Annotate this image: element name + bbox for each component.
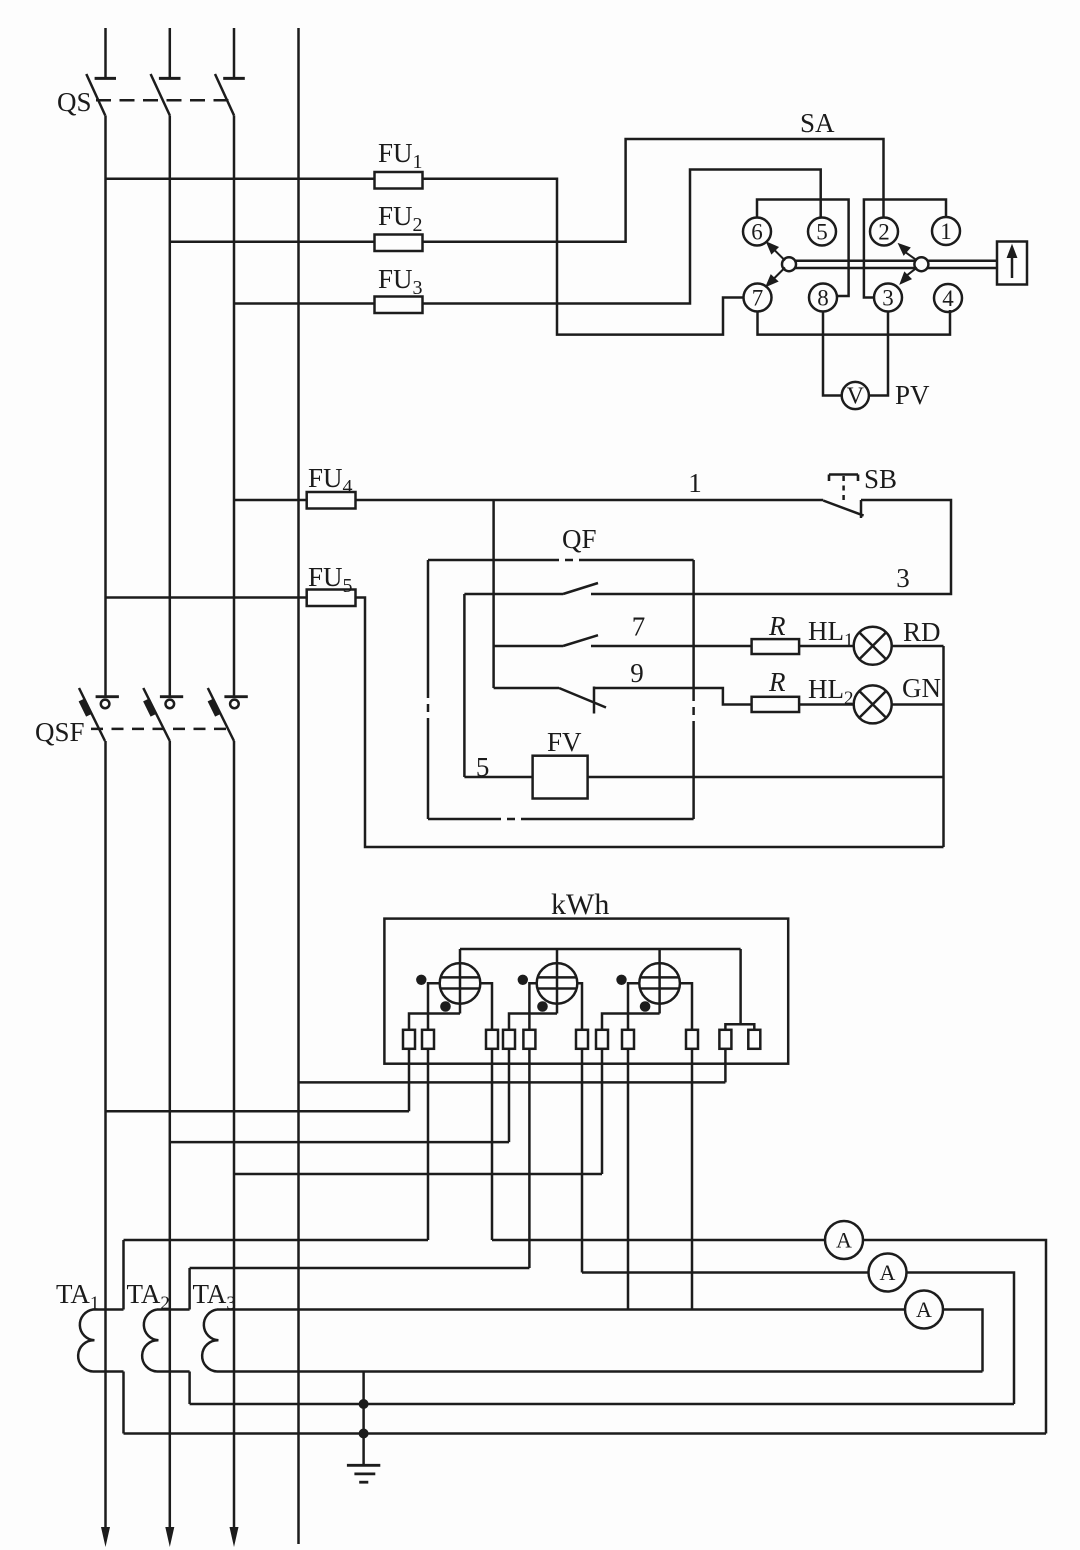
svg-text:A: A — [836, 1228, 852, 1253]
svg-text:1: 1 — [688, 468, 702, 498]
svg-text:9: 9 — [630, 658, 644, 688]
svg-text:HL1: HL1 — [808, 616, 854, 651]
svg-text:PV: PV — [895, 380, 930, 410]
svg-text:kWh: kWh — [551, 888, 609, 921]
svg-text:HL2: HL2 — [808, 674, 854, 709]
svg-text:5: 5 — [476, 752, 490, 782]
svg-text:7: 7 — [632, 612, 646, 642]
svg-text:GN: GN — [902, 673, 941, 703]
svg-text:1: 1 — [940, 219, 952, 244]
svg-text:SB: SB — [864, 464, 897, 494]
svg-text:QS: QS — [57, 87, 92, 117]
svg-text:8: 8 — [817, 286, 829, 311]
svg-text:R: R — [768, 667, 786, 697]
svg-text:6: 6 — [751, 220, 763, 245]
svg-text:QSF: QSF — [35, 717, 85, 747]
svg-text:A: A — [880, 1260, 896, 1285]
svg-text:FV: FV — [547, 727, 582, 757]
svg-text:RD: RD — [903, 617, 941, 647]
svg-text:7: 7 — [752, 286, 764, 311]
svg-text:TA2: TA2 — [127, 1279, 170, 1314]
svg-text:3: 3 — [896, 563, 910, 593]
svg-text:FU3: FU3 — [378, 264, 423, 299]
svg-text:QF: QF — [562, 524, 597, 554]
svg-text:FU5: FU5 — [308, 562, 353, 597]
svg-text:FU1: FU1 — [378, 138, 423, 173]
svg-text:4: 4 — [942, 286, 954, 311]
svg-text:V: V — [847, 384, 865, 410]
svg-text:A: A — [916, 1297, 932, 1322]
svg-text:FU4: FU4 — [308, 463, 353, 498]
svg-text:SA: SA — [800, 108, 835, 138]
svg-text:R: R — [768, 611, 786, 641]
svg-text:2: 2 — [878, 220, 890, 245]
svg-text:TA3: TA3 — [193, 1279, 236, 1314]
svg-text:3: 3 — [882, 286, 894, 311]
svg-text:5: 5 — [816, 220, 828, 245]
svg-text:FU2: FU2 — [378, 201, 423, 236]
svg-text:TA1: TA1 — [56, 1279, 99, 1314]
